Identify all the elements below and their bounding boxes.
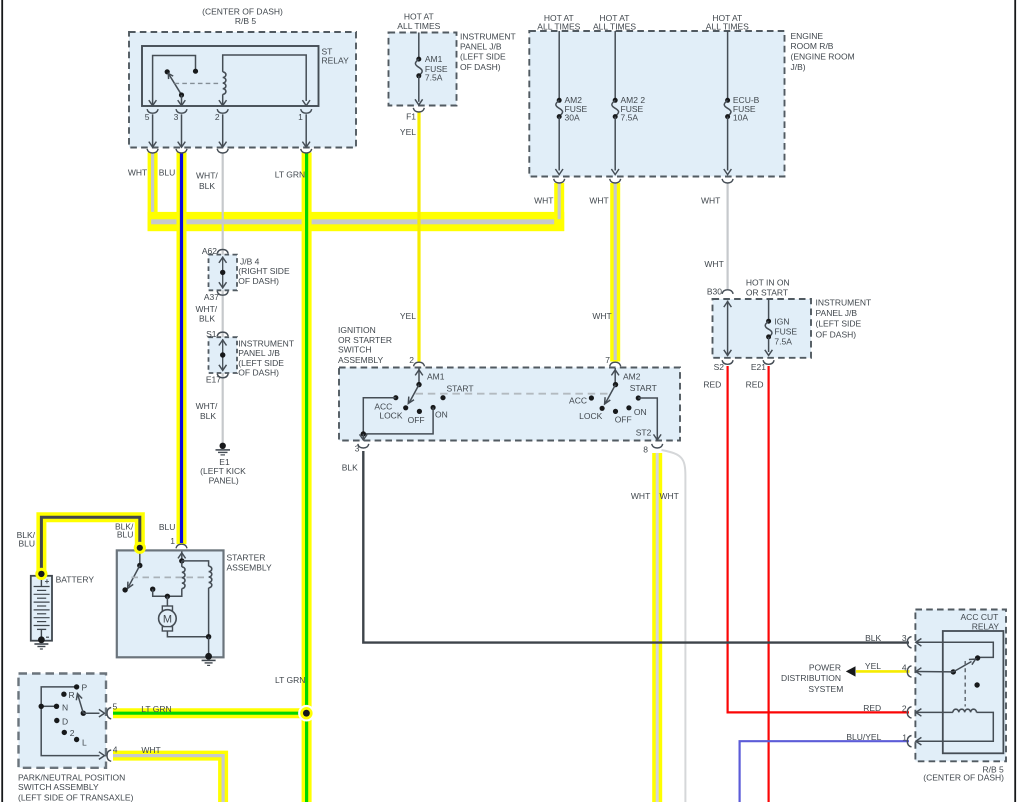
wire WHT highlighted: AM2-2 fuse down to ignition switch pin 7: [610, 183, 620, 362]
svg-text:5: 5: [113, 702, 118, 712]
svg-text:FUSE: FUSE: [774, 326, 797, 336]
svg-text:HOT AT: HOT AT: [404, 11, 434, 21]
engine room R/B text: [791, 31, 855, 72]
svg-text:BLU: BLU: [159, 167, 176, 177]
park/neutral position switch box: [19, 674, 107, 768]
svg-text:RED: RED: [703, 379, 721, 389]
ignition pin 7 connector: [605, 355, 620, 366]
svg-text:A37: A37: [204, 292, 219, 302]
BLU wire label and starter pin 1: [159, 522, 176, 546]
WHT/BLK label lower: [196, 401, 218, 421]
hot at all times label (AM1): [397, 11, 440, 31]
svg-text:SWITCH: SWITCH: [338, 345, 372, 355]
connector S1: [206, 329, 228, 339]
park/neutral name: [18, 772, 134, 802]
ACC cut relay R/B 5 label: [923, 765, 1004, 783]
svg-text:INSTRUMENT: INSTRUMENT: [460, 31, 516, 41]
svg-text:WHT: WHT: [660, 491, 679, 501]
svg-text:ALL TIMES: ALL TIMES: [706, 22, 749, 32]
svg-text:WHT: WHT: [141, 745, 160, 755]
junction block J/B 4 box: [209, 255, 238, 291]
ignition right switch AM2: [605, 368, 641, 404]
svg-text:WHT: WHT: [128, 167, 147, 177]
connector B30: [707, 287, 733, 297]
svg-text:HOT IN ON: HOT IN ON: [746, 278, 790, 288]
svg-text:ALL TIMES: ALL TIMES: [537, 22, 580, 32]
svg-text:WHT/: WHT/: [195, 304, 217, 314]
svg-text:STARTER: STARTER: [227, 553, 266, 563]
svg-text:BLK: BLK: [199, 181, 215, 191]
svg-text:OF DASH): OF DASH): [816, 329, 857, 339]
svg-text:ROOM R/B: ROOM R/B: [791, 41, 834, 51]
junction dot: LT GRN tee: [298, 705, 315, 722]
svg-text:OFF: OFF: [408, 415, 425, 425]
relay box R/B 5 (center of dash) dashed enclosure: [129, 32, 356, 148]
RED labels below S2/E21: [703, 379, 763, 389]
svg-text:M: M: [163, 614, 172, 626]
ACC cut relay name: [961, 612, 1000, 631]
wire BLK/BLU highlighted: battery positive to starter junction: [41, 517, 139, 575]
ACC cut relay inner box: [943, 631, 1004, 753]
svg-text:7: 7: [605, 355, 610, 365]
fuse AM1 7.5A: [415, 33, 448, 105]
svg-text:BLU/YEL: BLU/YEL: [846, 732, 881, 742]
svg-text:LOCK: LOCK: [579, 411, 602, 421]
instrument panel J/B box with AM1 fuse: [389, 33, 457, 106]
wire LT GRN highlighted: park/neutral pin 5 to junction: [113, 708, 307, 718]
svg-text:2: 2: [70, 728, 75, 738]
J/B 4 internal link: [219, 257, 227, 289]
svg-text:LT GRN: LT GRN: [275, 170, 305, 180]
svg-text:PANEL): PANEL): [209, 476, 239, 486]
svg-text:(LEFT SIDE: (LEFT SIDE: [238, 358, 284, 368]
svg-text:BLK: BLK: [200, 411, 216, 421]
ST relay pin arrows at inner box bottom: [149, 100, 310, 106]
svg-text:L: L: [82, 738, 87, 748]
junction dot: battery feed at starter: [134, 542, 146, 554]
svg-text:N: N: [62, 702, 68, 712]
svg-text:ST2: ST2: [636, 428, 652, 438]
svg-text:(RIGHT SIDE: (RIGHT SIDE: [238, 266, 290, 276]
starter contact switch: [122, 548, 155, 592]
hot in on or start label: [746, 278, 790, 298]
instrument panel J/B text (IGN box): [816, 298, 872, 340]
svg-text:LT GRN: LT GRN: [141, 704, 171, 714]
svg-text:AM1: AM1: [427, 371, 445, 381]
ST relay switch contact and arm: [165, 69, 185, 106]
svg-text:(CENTER OF DASH): (CENTER OF DASH): [923, 773, 1004, 783]
starter ground: [202, 653, 216, 666]
svg-text:ALL TIMES: ALL TIMES: [593, 22, 636, 32]
svg-text:SWITCH ASSEMBLY: SWITCH ASSEMBLY: [18, 782, 99, 792]
svg-text:AM2: AM2: [623, 371, 641, 381]
starter assembly box: [117, 550, 224, 657]
starter assembly name: [227, 553, 273, 573]
svg-text:2: 2: [409, 355, 414, 365]
fuse ECU-B 10A: [724, 31, 760, 175]
wire WHT: ECU-B fuse down to B30: [726, 183, 728, 290]
ignition left switch position contacts: [374, 384, 473, 425]
svg-text:4: 4: [113, 744, 118, 754]
wire YEL: AM1 fuse F1 down to ignition switch pin 2: [417, 113, 420, 362]
hot at all times labels (engine room): [537, 13, 749, 32]
svg-text:RELAY: RELAY: [322, 56, 350, 66]
svg-text:ENGINE: ENGINE: [791, 31, 824, 41]
starter motor M: [159, 596, 212, 656]
wire WHT highlighted: ignition ST2 pin 8 down to bottom edge: [652, 453, 662, 802]
wire color labels below ST relay: [128, 167, 305, 191]
svg-text:YEL: YEL: [400, 311, 416, 321]
battery ground: [34, 636, 48, 649]
ST relay inner box: [142, 46, 319, 106]
fuse AM2 30A: [555, 31, 587, 175]
park/neutral switch arm: [76, 694, 104, 717]
ST relay mechanical dashed link: [175, 82, 221, 84]
svg-text:3: 3: [174, 112, 179, 122]
svg-text:BLK: BLK: [865, 633, 881, 643]
svg-text:OR STARTER: OR STARTER: [338, 335, 392, 345]
ST relay pin 5 riser and fixed contact: [153, 56, 198, 107]
BLK/BLU wire labels: [17, 521, 134, 548]
S1/E17 internal link: [219, 339, 227, 371]
svg-text:ON: ON: [435, 410, 448, 420]
svg-text:J/B): J/B): [791, 62, 806, 72]
ACC cut relay switch arm: [915, 659, 975, 675]
svg-text:OR START: OR START: [746, 288, 788, 298]
wire BLK: ignition pin 3 down and right to ACC cut relay pin 3: [363, 451, 909, 643]
svg-text:PARK/NEUTRAL POSITION: PARK/NEUTRAL POSITION: [18, 772, 125, 782]
svg-text:BLU: BLU: [117, 530, 134, 540]
svg-text:PANEL J/B: PANEL J/B: [238, 348, 280, 358]
svg-text:SYSTEM: SYSTEM: [808, 684, 843, 694]
wire RED: E21 down to bottom edge: [767, 366, 769, 802]
ACC cut relay spare contact: [974, 682, 979, 687]
svg-text:1: 1: [170, 536, 175, 546]
svg-text:PANEL J/B: PANEL J/B: [460, 41, 502, 51]
svg-text:J/B 4: J/B 4: [240, 256, 260, 266]
arrow to power distribution system: [846, 666, 856, 676]
instrument panel J/B box (S1/E17): [209, 337, 238, 373]
svg-text:B30: B30: [707, 287, 722, 297]
svg-text:P: P: [82, 683, 88, 693]
wire WHT highlighted: AM2 fuse drop at x=559.2: [554, 183, 564, 231]
wire WHT highlighted horizontal run y=221.7: [148, 212, 565, 231]
ignition left switch AM1: [408, 368, 444, 403]
svg-text:(LEFT SIDE OF TRANSAXLE): (LEFT SIDE OF TRANSAXLE): [18, 792, 134, 802]
svg-text:RED: RED: [746, 379, 764, 389]
park/neutral pin 5 connector: [107, 702, 172, 719]
svg-text:WHT: WHT: [592, 311, 611, 321]
svg-text:2: 2: [902, 704, 907, 714]
engine room pin connectors: [554, 179, 733, 183]
svg-text:1: 1: [298, 112, 303, 122]
starter pin 1 connector: [176, 544, 187, 548]
wire BLU highlighted: ST relay pin 3 to starter pin 1: [177, 153, 187, 545]
svg-text:S1: S1: [206, 329, 217, 339]
svg-text:WHT: WHT: [534, 195, 553, 205]
ignition switch mechanical dashed link: [416, 393, 608, 395]
svg-text:8: 8: [643, 444, 648, 454]
svg-text:WHT/: WHT/: [196, 401, 218, 411]
svg-text:AM1: AM1: [425, 54, 443, 64]
svg-text:LT GRN: LT GRN: [275, 675, 305, 685]
ST relay name label: [322, 47, 350, 66]
starter hold-in coil: [182, 561, 212, 637]
park/neutral pin 4 connector: [107, 744, 161, 761]
svg-text:WHT: WHT: [589, 195, 608, 205]
wire WHT highlighted: AM2 fuse to ST relay pin 5 (vertical pin5 part): [148, 153, 158, 232]
wire BLU/YEL: ACC cut relay pin 1 left and down: [740, 741, 909, 802]
ACC cut relay coil and pins 2/1: [915, 709, 993, 745]
svg-text:PANEL J/B: PANEL J/B: [816, 308, 858, 318]
instrument panel J/B text (S1 box): [238, 338, 294, 377]
ignition right switch ST2 wiring to pin 8: [636, 398, 661, 440]
connector E21: [751, 360, 774, 372]
svg-text:WHT: WHT: [701, 195, 720, 205]
YEL and WHT labels above ignition switch: [400, 311, 612, 321]
svg-text:IGN: IGN: [774, 316, 789, 326]
J/B 4 text: [238, 256, 290, 285]
svg-text:START: START: [630, 383, 657, 393]
svg-text:DISTRIBUTION: DISTRIBUTION: [781, 673, 841, 683]
svg-text:30A: 30A: [565, 113, 580, 123]
svg-text:BLK: BLK: [199, 314, 215, 324]
svg-text:POWER: POWER: [809, 663, 841, 673]
ignition pin 2 connector: [409, 355, 424, 366]
svg-text:10A: 10A: [733, 113, 748, 123]
B30 through-link: [724, 301, 732, 357]
svg-text:7.5A: 7.5A: [774, 336, 792, 346]
engine room R/B box: [529, 31, 784, 177]
svg-text:RELAY: RELAY: [972, 621, 1000, 631]
svg-text:OF DASH): OF DASH): [460, 62, 501, 72]
svg-text:7.5A: 7.5A: [621, 113, 639, 123]
wire LT GRN highlighted: ST relay pin 1 down to bottom edge: [302, 153, 312, 802]
svg-text:F1: F1: [406, 112, 416, 122]
power distribution system label: [781, 663, 843, 694]
svg-text:OF DASH): OF DASH): [238, 368, 279, 378]
svg-text:3: 3: [902, 633, 907, 643]
ACC cut relay connectors and pin numbers: [902, 633, 912, 747]
ST relay pin connectors and numbers: [145, 109, 312, 122]
frame border right: [1014, 0, 1016, 802]
park/neutral position contacts: [54, 683, 88, 748]
svg-text:INSTRUMENT: INSTRUMENT: [238, 338, 294, 348]
connector E17: [206, 374, 228, 385]
svg-text:A62: A62: [202, 246, 217, 256]
svg-text:ON: ON: [634, 407, 647, 417]
svg-text:BLU: BLU: [159, 522, 176, 532]
svg-text:2: 2: [215, 112, 220, 122]
ignition right switch position contacts: [569, 383, 657, 424]
svg-text:WHT/: WHT/: [196, 170, 218, 180]
svg-text:LOCK: LOCK: [379, 410, 402, 420]
WHT labels below engine room box: [534, 195, 720, 205]
R/B5 title: [202, 7, 283, 26]
svg-text:1: 1: [902, 733, 907, 743]
connector F1: [400, 108, 424, 137]
park/neutral internal wiring: [39, 687, 105, 759]
ignition switch title: [338, 325, 392, 365]
svg-text:RED: RED: [863, 703, 881, 713]
ACC cut relay dashed link: [964, 661, 966, 707]
svg-text:WHT: WHT: [704, 259, 723, 269]
instrument panel J/B text: [460, 31, 516, 72]
svg-text:D: D: [62, 716, 68, 726]
svg-text:R/B 5: R/B 5: [235, 16, 257, 26]
svg-text:IGNITION: IGNITION: [338, 325, 376, 335]
ST relay pin leads to R/B5 edge: [147, 114, 312, 153]
svg-text:5: 5: [145, 112, 150, 122]
svg-text:E21: E21: [751, 362, 766, 372]
svg-text:ASSEMBLY: ASSEMBLY: [227, 563, 273, 573]
ACC cut relay box: [915, 610, 1006, 762]
frame border left: [1, 0, 3, 802]
connector A37: [204, 291, 228, 302]
wire labels at ACC cut relay: [846, 633, 881, 742]
fuse AM2 2 7.5A: [611, 31, 645, 175]
svg-text:(ENGINE ROOM: (ENGINE ROOM: [791, 52, 855, 62]
svg-text:(LEFT KICK: (LEFT KICK: [200, 466, 246, 476]
ignition pin 3 connector: [342, 443, 369, 472]
svg-text:(LEFT SIDE: (LEFT SIDE: [460, 52, 506, 62]
wire WHT highlighted: park/neutral pin 4 right and down: [113, 756, 223, 802]
battery: [31, 574, 95, 640]
ignition or starter switch assembly box: [339, 368, 680, 441]
svg-text:BLU: BLU: [18, 538, 35, 548]
svg-text:ACC: ACC: [569, 395, 587, 405]
svg-text:BLK: BLK: [342, 463, 358, 473]
fuse IGN 7.5A: [765, 299, 798, 355]
ST relay coil: [223, 55, 307, 106]
starter pin 1 lead and pull-in coil: [153, 552, 186, 600]
connector A62: [202, 246, 228, 256]
wire WHT/BLK: ST relay pin 2 down to E1 ground: [222, 153, 224, 444]
instrument panel J/B box with IGN fuse: [713, 299, 812, 358]
connector S2: [714, 360, 734, 372]
svg-text:7.5A: 7.5A: [425, 73, 443, 83]
svg-text:YEL: YEL: [400, 127, 416, 137]
ground E1: [200, 443, 246, 486]
svg-text:ALL TIMES: ALL TIMES: [397, 21, 440, 31]
starter mechanical dashed link: [132, 576, 205, 578]
wire RED: S2 down and right to ACC cut relay pin 2: [728, 366, 909, 712]
svg-text:YEL: YEL: [865, 661, 881, 671]
ignition left switch wiring to pin 3: [360, 398, 434, 440]
wire YEL: ACC cut relay pin 4 to power distribution arrow: [856, 670, 910, 673]
svg-text:E17: E17: [206, 374, 221, 384]
svg-text:(LEFT SIDE: (LEFT SIDE: [816, 319, 862, 329]
svg-text:START: START: [447, 384, 474, 394]
svg-text:S2: S2: [714, 362, 725, 372]
svg-text:WHT: WHT: [631, 491, 650, 501]
svg-text:4: 4: [902, 662, 907, 672]
svg-text:OFF: OFF: [615, 414, 632, 424]
ignition pin 8 connector: [631, 444, 679, 501]
svg-text:INSTRUMENT: INSTRUMENT: [816, 298, 872, 308]
svg-text:ASSEMBLY: ASSEMBLY: [338, 355, 384, 365]
svg-text:BATTERY: BATTERY: [56, 574, 95, 584]
svg-text:3: 3: [355, 443, 360, 453]
WHT/BLK label upper: [195, 304, 217, 324]
wire WHT: ignition pin 8 branch curving right then down: [662, 450, 686, 802]
svg-text:OF DASH): OF DASH): [238, 276, 279, 286]
svg-text:R: R: [69, 690, 75, 700]
ACC cut relay pin 3 path and fixed contact: [915, 639, 993, 661]
junction dot: battery positive post: [35, 568, 47, 580]
